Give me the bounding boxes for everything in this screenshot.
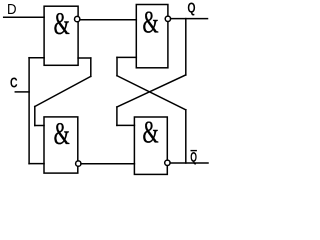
wire Q feedback diagonal to U4 (117, 75, 186, 107)
wire Qbar feedback diagonal to U3 (117, 76, 186, 110)
svg-text:&: & (143, 114, 159, 149)
wire into U2 first input (35, 125, 44, 127)
svg-text:Q: Q (187, 0, 195, 16)
wire U1 feedback diagonal to U2 (35, 76, 91, 106)
U1 output bubble (75, 16, 80, 21)
U3 output bubble (165, 16, 170, 21)
wire U4 input vertical (116, 107, 118, 125)
svg-text:&: & (54, 6, 70, 41)
wire U1 feedback vertical (90, 58, 92, 76)
wire Q output (171, 18, 208, 20)
wire Q feedback vertical (185, 19, 187, 75)
wire U2 input vertical (34, 107, 36, 126)
wire Qbar output (170, 162, 208, 164)
svg-text:Q: Q (190, 149, 197, 165)
wire into U3 second input (117, 56, 136, 58)
nand gate U1 (top-left) body (44, 6, 78, 65)
nand gate U3 (top-right) body (136, 5, 168, 68)
svg-text:C: C (10, 73, 18, 90)
U4 output bubble (165, 160, 170, 165)
wire C input horizontal (15, 91, 29, 93)
wire U2 output to U4 input (81, 163, 134, 165)
wire C to U2 second input (29, 163, 44, 165)
wire into U4 first input (117, 124, 134, 126)
wire Qbar feedback vertical (185, 110, 187, 163)
U2 output bubble (76, 161, 81, 166)
wire C vertical bus (28, 58, 30, 164)
svg-text:D: D (7, 0, 17, 17)
svg-text:&: & (54, 116, 70, 151)
label Qbar overline (191, 150, 197, 152)
wire U1 feedback stub right (78, 57, 91, 59)
wire U1 output to U3 input (80, 19, 136, 21)
nand gate U2 (bottom-left) body (44, 117, 78, 173)
svg-text:&: & (143, 4, 159, 39)
wire C to U1 second input (29, 57, 44, 59)
wire D input to U1 (4, 16, 44, 18)
wire U3 input vertical (116, 57, 118, 75)
nand gate U4 (bottom-right) body (134, 117, 167, 174)
